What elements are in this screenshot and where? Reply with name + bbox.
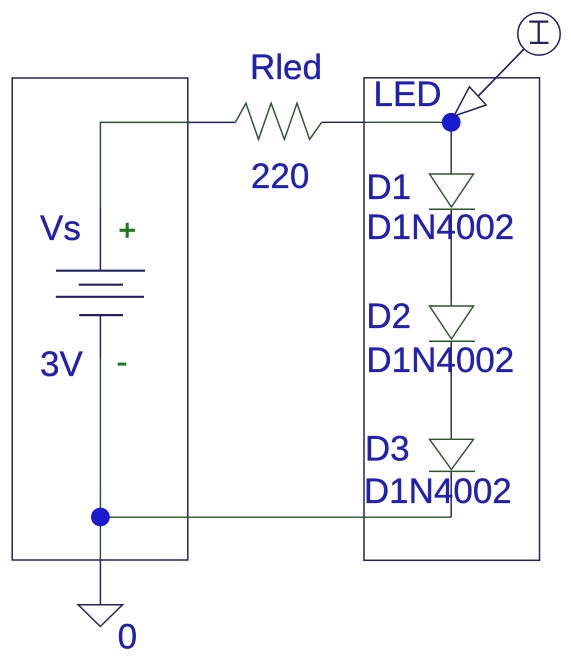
label Rled	[250, 48, 322, 87]
svg-text:0: 0	[118, 618, 137, 657]
svg-text:D3: D3	[365, 430, 410, 469]
ground pin	[99, 560, 101, 605]
voltage source block outline (left box)	[12, 78, 188, 560]
LED diode string block outline (right box)	[364, 78, 540, 561]
node junction dot (ground rail)	[91, 508, 110, 527]
svg-text:LED: LED	[374, 75, 442, 114]
battery Vs bottom pin	[99, 315, 101, 358]
wire: battery positive up and right to box edge	[100, 122, 188, 208]
diode D3	[429, 432, 475, 477]
value label 3V	[40, 345, 83, 384]
label Vs	[40, 209, 81, 248]
battery Vs minus marking	[118, 363, 127, 366]
wire: D1 cathode to D2 anode	[450, 211, 452, 306]
resistor Rled left lead	[188, 121, 235, 123]
battery Vs plates	[56, 271, 145, 315]
net label 0	[118, 618, 137, 657]
value label D1N4002 (D3)	[364, 472, 512, 511]
svg-text:D1N4002: D1N4002	[366, 208, 514, 247]
value label 220	[251, 157, 309, 196]
wire: D2 cathode to D3 anode	[450, 342, 452, 439]
diode D1	[429, 167, 475, 216]
label LED	[374, 75, 442, 114]
node LED junction dot	[442, 113, 461, 132]
label D3	[365, 430, 410, 469]
svg-text:3V: 3V	[40, 345, 83, 384]
svg-text:Vs: Vs	[40, 209, 81, 248]
value label D1N4002 (D1)	[366, 208, 514, 247]
svg-text:D1N4002: D1N4002	[364, 472, 512, 511]
wire: bottom return rail	[100, 516, 451, 518]
wire: battery negative down through junction to box bottom	[99, 359, 101, 560]
svg-text:Rled: Rled	[250, 48, 322, 87]
wire: D3 cathode down to bottom rail	[450, 473, 452, 518]
wire: node LED to D1 anode	[450, 131, 452, 174]
current probe pointer line	[478, 49, 524, 96]
battery Vs top pin	[99, 208, 101, 271]
svg-text:D2: D2	[366, 297, 411, 336]
ground symbol	[78, 605, 122, 627]
wire: into node LED	[364, 121, 444, 123]
current probe arrowhead	[454, 87, 486, 116]
svg-text:220: 220	[251, 157, 309, 196]
label D2	[366, 297, 411, 336]
resistor Rled zigzag body	[235, 103, 321, 139]
diode D2	[429, 299, 475, 348]
battery Vs plus marking	[120, 223, 136, 238]
svg-text:D1N4002: D1N4002	[366, 341, 514, 380]
label D1	[366, 168, 411, 207]
resistor Rled right lead	[322, 121, 364, 123]
svg-text:D1: D1	[366, 168, 411, 207]
current probe circle with I	[518, 13, 560, 55]
value label D1N4002 (D2)	[366, 341, 514, 380]
